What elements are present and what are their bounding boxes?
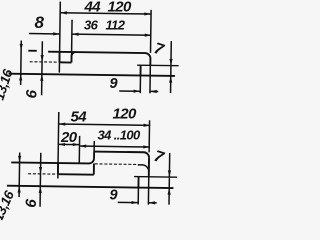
row1 right arrow <box>144 12 151 15</box>
extension x=80 <box>78 136 80 163</box>
7 bottom arrow <box>168 188 171 195</box>
row2 arrow 20 right <box>73 143 80 146</box>
slot right wall <box>93 164 95 175</box>
bottom edge + extensions <box>8 74 174 76</box>
dim row1 line 44/120 <box>60 13 151 14</box>
svg-text:120: 120 <box>113 106 137 123</box>
6 top arrow <box>39 167 42 174</box>
foot top edge + extension right <box>137 64 178 67</box>
extension foot wall down <box>139 75 141 93</box>
bottom edge + extensions <box>7 186 173 188</box>
svg-text:120: 120 <box>108 0 132 16</box>
13,16 top arrow <box>18 156 21 163</box>
dim 9 line <box>118 201 138 203</box>
slot right wall with fillet <box>71 52 75 63</box>
top edge left stub <box>28 50 36 52</box>
right edge <box>149 59 151 66</box>
row1 right arrow <box>144 124 151 127</box>
6 bottom arrow <box>40 74 43 81</box>
svg-text:9: 9 <box>110 76 118 92</box>
row2 arrow at slot right <box>72 33 79 36</box>
extension foot wall down <box>137 188 139 205</box>
extension line slot left wall up <box>58 2 61 73</box>
riser <box>93 152 95 159</box>
extension right edge top <box>150 10 153 53</box>
6 bottom arrow <box>39 186 42 193</box>
dim 9 line <box>119 90 140 92</box>
row1 left arrow <box>60 11 67 14</box>
svg-text:44: 44 <box>84 0 102 16</box>
13,16 bottom arrow <box>19 74 22 81</box>
svg-text:20: 20 <box>60 129 78 146</box>
foot top edge + extension <box>134 176 177 179</box>
extension right edge top <box>148 120 150 152</box>
svg-text:9: 9 <box>110 188 118 204</box>
hidden dashed line left <box>30 61 58 63</box>
right edge <box>148 158 150 177</box>
dim 13,16 line <box>20 41 23 85</box>
row2 arrow 34..100 right <box>143 145 150 148</box>
hidden dashed line left <box>28 173 56 175</box>
dim 7 line right bottom fig <box>168 153 171 204</box>
dim row2 line 20 / 34..100 <box>58 143 79 145</box>
extension line slot right wall up <box>71 20 74 57</box>
top edge main <box>48 52 150 59</box>
dim 7 line right <box>170 41 173 93</box>
svg-text:112: 112 <box>106 18 126 33</box>
solid mid edge fillet into right edge <box>138 165 149 172</box>
svg-text:34 ..100: 34 ..100 <box>98 128 142 143</box>
dim row1 line 54/120 <box>59 124 151 125</box>
7 bottom arrow <box>169 76 172 83</box>
extension slot left wall up <box>57 112 60 178</box>
top edge left + fillet into riser <box>11 157 94 163</box>
foot wall <box>137 177 139 188</box>
dim 6 line <box>41 41 44 95</box>
13,16 top arrow <box>20 44 23 51</box>
9 right arrow <box>150 90 157 93</box>
9 left arrow <box>131 201 138 204</box>
slot left wall <box>58 52 60 62</box>
svg-text:36: 36 <box>84 18 99 33</box>
svg-text:54: 54 <box>71 109 88 126</box>
7 top arrow <box>168 170 171 177</box>
slot bottom <box>58 173 94 176</box>
svg-text:8: 8 <box>35 13 45 32</box>
extension riser up <box>93 141 95 151</box>
row2 arrow 34..100 left <box>79 144 86 147</box>
extension right edge down <box>147 177 149 205</box>
foot wall <box>139 65 141 75</box>
row2 arrow 20 left <box>58 143 65 146</box>
row2 arrow at slot left <box>53 32 60 35</box>
slot left wall <box>57 163 59 174</box>
6 top arrow <box>40 55 43 62</box>
9 right arrow <box>148 201 155 204</box>
extension right edge down <box>149 65 151 93</box>
dim row2 line 36/112 <box>29 33 60 35</box>
9 left arrow <box>134 90 141 93</box>
slot bottom <box>59 61 71 63</box>
row2 right arrow <box>145 34 152 37</box>
dim 6 line bottom fig <box>39 153 42 207</box>
13,16 bottom arrow <box>18 186 21 193</box>
row1 left arrow <box>59 122 66 125</box>
7 top arrow <box>169 59 172 66</box>
hidden dashed line right <box>95 163 138 166</box>
dim 13,16 line bottom fig <box>18 153 21 197</box>
top edge right raised <box>94 152 149 158</box>
